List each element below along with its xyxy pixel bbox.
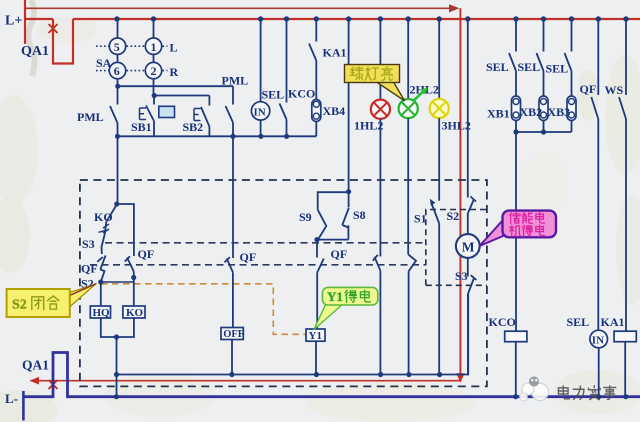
wire energized path (red vertical): [459, 8, 461, 374]
svg-text:1: 1: [151, 40, 157, 54]
lamp 1HL2 (red): [371, 100, 390, 119]
contact QF (right): [597, 19, 599, 95]
wire control bus y=136: [118, 135, 317, 137]
lamp 2HL2 column: [407, 19, 409, 99]
plug XB1: [512, 96, 521, 121]
svg-text:IN: IN: [254, 107, 266, 119]
svg-text:L: L: [170, 41, 178, 55]
svg-text:XB4: XB4: [323, 104, 346, 118]
contact SEL 1: [515, 19, 517, 52]
contact S8: [348, 192, 350, 208]
svg-text:Y1: Y1: [327, 289, 343, 304]
contact QF (left chain): [97, 256, 105, 270]
svg-text:XB1: XB1: [487, 107, 510, 121]
svg-text:WS: WS: [605, 83, 624, 97]
svg-text:HQ: HQ: [93, 307, 111, 319]
svg-text:3HL2: 3HL2: [442, 119, 471, 133]
svg-text:S3: S3: [455, 269, 468, 283]
pushbutton SB1: [153, 96, 155, 105]
svg-text:QA1: QA1: [22, 358, 49, 373]
svg-text:S3: S3: [82, 237, 95, 251]
contact KO: [107, 205, 117, 222]
contact WS: [625, 19, 627, 95]
wire coils to bus: [101, 318, 134, 337]
svg-text:QF: QF: [81, 262, 98, 276]
callout "green lamp lit": [375, 81, 405, 101]
selector switch SA contact 2: [153, 54, 155, 62]
selector switch SA contact 1: [153, 19, 155, 38]
svg-text:KO: KO: [94, 210, 113, 224]
inner dashed box S1 S2 M: [426, 210, 487, 286]
svg-text:SA: SA: [96, 56, 112, 70]
contact S1: [431, 203, 439, 224]
wire L- terminal stub: [22, 391, 25, 421]
wire node6 to PML right branch: [118, 85, 233, 87]
wire KCO coil column: [515, 132, 517, 331]
svg-text:KA1: KA1: [601, 315, 625, 329]
contact S2 (left chain): [100, 270, 104, 283]
svg-text:S9: S9: [299, 210, 312, 224]
contact SEL 3: [571, 19, 573, 52]
coil KO: [123, 306, 145, 318]
svg-text:R: R: [170, 65, 179, 79]
contact PML (left): [117, 86, 119, 104]
SA shaft dotted lines: [96, 46, 168, 70]
wire from contact 6: [117, 79, 119, 86]
svg-text:5: 5: [114, 40, 120, 54]
coil KCO: [505, 331, 527, 342]
plug XB2: [539, 96, 548, 121]
svg-text:PML: PML: [222, 74, 249, 88]
plug XB3: [567, 96, 576, 121]
indicator IN (upper): [260, 19, 262, 102]
wire L+ bus: [25, 18, 640, 20]
coil Y1: [306, 329, 325, 341]
coil HQ: [90, 306, 110, 318]
wire PML2 column down: [232, 136, 234, 258]
contact QF (KO branch): [125, 256, 134, 271]
svg-text:KA1: KA1: [323, 46, 347, 60]
breaker QA1 (top, drawn as detour with X): [53, 19, 73, 64]
selector switch SA contact 5: [117, 19, 119, 38]
contact S2 (motor branch): [467, 19, 469, 198]
mechanical linkage dashed line (upper): [105, 242, 426, 244]
svg-text:QF: QF: [138, 247, 155, 261]
callout "S2 closed": [70, 285, 96, 308]
svg-text:KO: KO: [126, 307, 144, 319]
indicator IN (lower SEL): [590, 330, 608, 348]
callout "storing motor energized": [480, 220, 504, 246]
contact QF (2HL2 branch): [408, 254, 416, 271]
svg-text:XB2: XB2: [520, 105, 543, 119]
svg-text:S2: S2: [12, 298, 27, 313]
watermark logo: [520, 377, 549, 402]
svg-text:SEL: SEL: [262, 88, 285, 102]
arrow into storing-path (points right): [449, 4, 460, 12]
contact KA1: [315, 19, 317, 42]
svg-text:QA1: QA1: [21, 44, 49, 59]
svg-text:Y1: Y1: [309, 330, 322, 342]
contact S3 (motor branch): [468, 275, 477, 294]
svg-text:2: 2: [151, 64, 157, 78]
wire PML column into box: [117, 136, 119, 204]
plug XB4: [312, 100, 321, 122]
svg-text:IN: IN: [592, 335, 604, 347]
breaker QA1 trip X mark: [49, 380, 58, 389]
svg-text:KCO: KCO: [288, 87, 315, 101]
green arrow to 2HL2: [414, 92, 424, 101]
contact PML (right): [232, 86, 234, 104]
contact KCO (upper): [286, 19, 288, 103]
outer dashed box: [80, 180, 487, 386]
svg-text:QF: QF: [331, 247, 348, 261]
coil KA1: [614, 331, 636, 342]
svg-text:OFF: OFF: [223, 329, 244, 340]
indicator block (blue rectangle): [159, 106, 175, 117]
svg-text:PML: PML: [77, 110, 104, 124]
svg-text:SB1: SB1: [131, 120, 152, 134]
svg-text:S2: S2: [447, 209, 460, 223]
callout "Y1 energized": [314, 304, 344, 330]
svg-text:SEL: SEL: [546, 62, 569, 76]
contact QF (Y1 column): [317, 259, 324, 273]
svg-text:KCO: KCO: [489, 315, 516, 329]
mechanical linkage dashed line (lower QF): [90, 264, 426, 266]
wire from contact 2: [153, 79, 155, 96]
svg-text:QF: QF: [240, 250, 257, 264]
svg-text:L+: L+: [5, 14, 22, 29]
wire S9 S8 column: [348, 19, 350, 192]
lamp 2HL2 (green): [399, 99, 418, 118]
lamp 3HL2 column: [438, 19, 440, 99]
pushbutton SB2: [208, 96, 210, 106]
wire trip path to QA1 (red horizontal): [31, 380, 461, 382]
watermark text: [558, 386, 615, 400]
svg-text:SEL: SEL: [518, 60, 541, 74]
svg-text:XB3: XB3: [548, 105, 571, 119]
svg-text:SB2: SB2: [183, 120, 204, 134]
wire L+ terminal stub: [24, 0, 26, 44]
contact S9: [318, 210, 327, 240]
bus junction dots: [114, 16, 628, 21]
wire right KO-branch: [117, 204, 134, 256]
wire link between branches: [101, 281, 134, 283]
svg-text:SEL: SEL: [567, 315, 590, 329]
svg-text:6: 6: [114, 64, 120, 78]
contact S3 (left chain): [99, 230, 107, 232]
contact QF (OFF column): [225, 257, 233, 272]
contact SEL 2: [543, 19, 545, 52]
svg-text:M: M: [462, 240, 475, 255]
wire inner return bus: [117, 294, 469, 375]
orange dashed S2-to-Y1 path: [101, 284, 306, 335]
svg-text:S1: S1: [414, 212, 427, 226]
motor M: [456, 234, 480, 258]
svg-text:L-: L-: [5, 391, 18, 406]
wire node2 to SB2 branch: [154, 95, 209, 97]
svg-text:1HL2: 1HL2: [354, 119, 383, 133]
svg-text:SEL: SEL: [486, 60, 509, 74]
wire L- bus with QA1 detour: [23, 353, 640, 397]
wire L+ top thin red line: [25, 7, 449, 9]
wire XB collector bus: [516, 131, 572, 133]
contact QF (1HL2 branch): [373, 255, 381, 271]
svg-text:QF: QF: [580, 82, 597, 96]
coil OFF: [221, 328, 243, 340]
selector switch SA contact 6: [117, 54, 119, 62]
lamp 1HL2 column: [379, 19, 381, 100]
lamp 3HL2 (yellow): [430, 99, 449, 118]
svg-text:S8: S8: [353, 208, 366, 222]
